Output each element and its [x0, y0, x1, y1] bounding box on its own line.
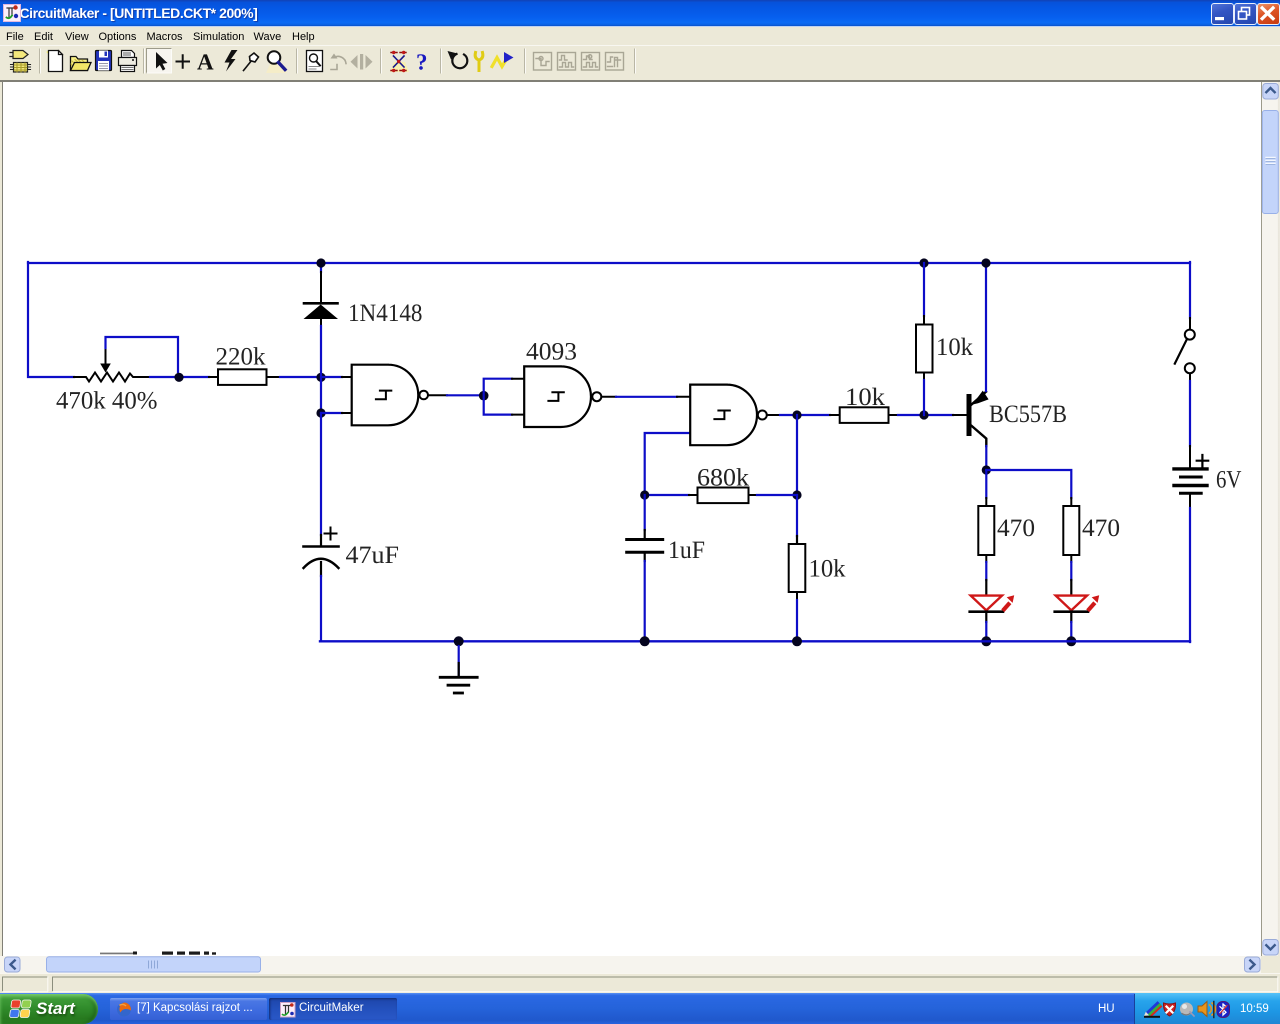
wire wiper loop to right end of pot: [106, 337, 179, 372]
node junction pot/wiper: [174, 373, 183, 382]
LED D3 arrow: [1086, 595, 1099, 612]
wire R3 to base node: [898, 414, 953, 416]
tray pen icon: [1144, 1004, 1161, 1017]
node junction gate1 lower input: [316, 408, 325, 417]
wire R4 to base node: [923, 380, 925, 415]
node junction bottom rail x1071: [1066, 636, 1076, 646]
wire pot to R2: [150, 376, 209, 378]
canvas clipped text fragment at bottom: [100, 952, 216, 955]
wire node A down to C1: [320, 413, 322, 545]
node B junction gate3 output: [792, 410, 801, 419]
switch S1 blade: [1175, 340, 1187, 364]
restore button glyph: [1239, 8, 1250, 20]
wire 680k to node B column: [757, 494, 797, 496]
tray speaker icon: [1198, 1002, 1215, 1018]
LED D2 cathode bar: [970, 610, 1003, 613]
transistor Q1 BC557B base pin: [953, 414, 967, 416]
toolbar icon rotate disabled: [331, 54, 347, 70]
wire C1 to bottom rail: [320, 562, 322, 641]
toolbar icon parts browser: [10, 51, 31, 73]
battery V1 bottom lead: [1189, 495, 1191, 508]
resistor R8 10k lower: [789, 544, 806, 600]
hscrollbar right button: [1245, 957, 1261, 972]
wire gate3 out to node B: [780, 414, 830, 416]
resistor R4 10k vertical pull-up: [916, 316, 933, 380]
gate U1C output bubble: [758, 411, 767, 420]
wire gate3 output pin: [767, 414, 780, 416]
op gate U1C 4093 NAND body: [690, 385, 757, 446]
wire right rail top: [1189, 262, 1191, 318]
gate U1B output bubble: [592, 392, 601, 401]
gate U1B hysteresis mark: [548, 392, 563, 401]
wire R6 to LED1: [985, 562, 987, 595]
gate U1A output bubble: [419, 391, 428, 400]
statusbar sunken panels: [3, 977, 1278, 992]
wire gate1 out to gate2 in: [447, 394, 483, 396]
wire left rail down to potentiometer: [28, 262, 74, 377]
taskbar start flag: [9, 1000, 31, 1018]
op gate U1A 4093 pins: [342, 377, 351, 413]
node junction feedback left: [640, 490, 649, 499]
resistor R3 10k horizontal: [830, 407, 898, 423]
wire node A into gate1 input pins: [321, 377, 342, 413]
potentiometer R1 wiper arrow: [100, 345, 111, 373]
LED D3 triangle: [1056, 596, 1087, 611]
toolbar icon wrench yellow: [475, 53, 483, 71]
battery V1 top lead: [1189, 446, 1191, 468]
toolbar icon zoom page: [307, 51, 323, 72]
taskbar circuitmaker icon: [281, 1003, 296, 1018]
op gate U1B 4093 NAND body: [524, 366, 591, 427]
transistor Q1 emitter with arrow: [972, 391, 989, 405]
wire node B down to 680k node: [796, 415, 798, 495]
wire collector down to LED branch node: [985, 446, 987, 470]
capacitor C1 47uF plates: [304, 547, 339, 569]
wire switch to battery: [1189, 381, 1191, 446]
wire 680k node down to R8: [796, 495, 798, 544]
potentiometer R1 470k body: [74, 373, 150, 382]
op gate U1A 4093 NAND body: [352, 365, 419, 426]
vscrollbar thumb: [1262, 104, 1278, 214]
LED D3 cathode bar: [1055, 610, 1088, 613]
wire feedback node to 680k: [645, 494, 689, 496]
wire branch node to second LED branch: [986, 470, 1071, 498]
node junction top rail x986: [981, 258, 990, 267]
wire feedback node down to C2: [644, 495, 646, 538]
toolbar icon zoom: [266, 51, 287, 73]
wire branch node down to R6: [985, 470, 987, 498]
switch S1 top lead: [1189, 318, 1191, 329]
close button glyph: [1262, 8, 1273, 19]
svg-text:A: A: [197, 50, 214, 75]
node junction ground stem: [454, 636, 464, 646]
taskbar firefox icon: [117, 1003, 131, 1017]
svg-text:?: ?: [416, 50, 428, 75]
wire bottom ground rail: [320, 640, 1190, 642]
resistor R7 470 right: [1063, 498, 1079, 562]
toolbar icon print: [119, 51, 137, 72]
gate U1A hysteresis mark: [376, 391, 391, 400]
node junction feedback right: [792, 490, 801, 499]
toolbar pressed arrow tool button: [147, 49, 172, 74]
toolbar icon open folder: [71, 57, 92, 71]
node junction gate2 input: [479, 391, 489, 401]
wire gate3 lower input from feedback node: [645, 433, 690, 495]
toolbar disabled scope buttons: [534, 53, 624, 71]
node junction base node: [919, 410, 928, 419]
toolbar icon waveform probe: [492, 52, 514, 67]
toolbar icon lightning: [225, 50, 238, 72]
tray shield icon: [1163, 1003, 1175, 1016]
wire emitter to top rail: [985, 263, 987, 391]
toolbar icon new document: [46, 51, 63, 72]
wire gate2 input connector: [484, 379, 512, 415]
node junction top rail x924: [919, 258, 928, 267]
tray volume ball icon: [1180, 1003, 1194, 1017]
node junction bottom rail x797: [792, 636, 802, 646]
toolbar icon probe: [244, 53, 259, 71]
wire top rail to diode: [320, 263, 322, 272]
wire R8 to bottom rail: [796, 600, 798, 641]
vscrollbar down button: [1263, 940, 1279, 956]
wire R7 to LED2: [1070, 562, 1072, 595]
gate U1C input pins: [677, 397, 690, 433]
toolbar icon rerun: [448, 51, 468, 68]
toolbar icon probe points: [390, 51, 409, 72]
window chrome: [0, 0, 1280, 26]
switch S1 bottom contact: [1185, 363, 1195, 373]
gate U1B input pins: [512, 379, 524, 415]
hscrollbar thumb: [47, 957, 261, 972]
diode D1 1N4148: [304, 272, 339, 326]
wire R2 to node A: [280, 376, 321, 378]
wire top rail down to R4: [923, 263, 925, 316]
wire gate1 output pin: [429, 394, 448, 396]
resistor R5 680k: [689, 488, 757, 504]
wire LED1 to ground rail: [985, 612, 987, 641]
wire C2 to bottom rail: [644, 553, 646, 641]
capacitor C1 47uF plus sign: [325, 528, 337, 540]
title bar app icon: [4, 5, 21, 22]
minimize button glyph: [1215, 17, 1224, 20]
resistor R6 470 left: [978, 498, 994, 562]
gate U1C hysteresis mark: [714, 411, 729, 420]
vscrollbar up button: [1263, 84, 1279, 100]
switch S1 bottom lead: [1189, 374, 1191, 381]
resistor R2 220k: [209, 369, 280, 385]
capacitor C2 1uF plates: [627, 540, 663, 553]
node junction collector branch: [982, 465, 991, 474]
node junction bottom rail x986: [981, 636, 991, 646]
toolbar separators: [40, 49, 636, 73]
toolbar icon mirror arrows disabled: [351, 54, 373, 70]
toolbar icon save floppy: [96, 51, 112, 71]
wire gate2 out to gate3 top input: [616, 396, 677, 398]
hscrollbar left button: [5, 957, 21, 972]
node junction top rail x321: [316, 258, 325, 267]
ground symbol: [440, 646, 477, 693]
transistor Q1 collector: [972, 426, 987, 446]
node A junction at x321 y377: [316, 373, 325, 382]
toolbar icon plus: [177, 55, 190, 68]
wire LED2 to ground rail: [1070, 612, 1072, 641]
tray bluetooth icon: [1217, 1002, 1230, 1018]
LED D2 arrow: [1001, 595, 1014, 612]
switch S1 top contact: [1185, 330, 1195, 340]
transistor Q1 base bar: [967, 394, 972, 436]
LED D2 triangle: [971, 596, 1002, 611]
wire battery to bottom rail: [1189, 508, 1191, 642]
wire top power rail: [28, 262, 1190, 264]
wire gate2 output pin: [602, 396, 616, 398]
battery V1 plates: [1174, 469, 1207, 493]
wire diode to node A to gate inputs: [320, 326, 322, 413]
node junction bottom rail x644: [640, 636, 650, 646]
battery V1 plus sign: [1197, 455, 1209, 466]
